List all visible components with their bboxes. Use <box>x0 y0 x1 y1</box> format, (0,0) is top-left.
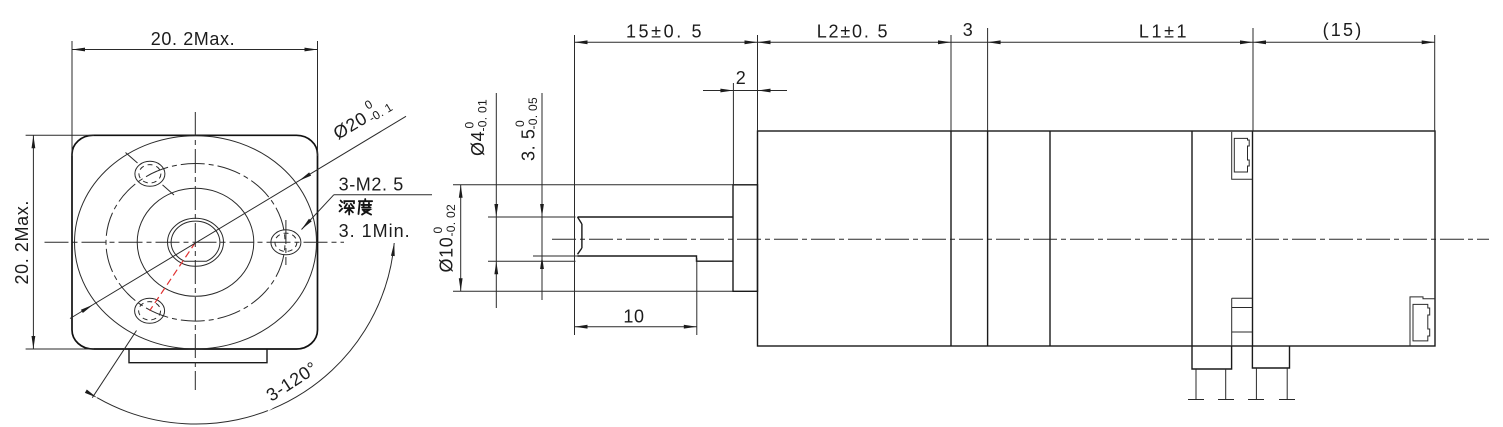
svg-text:(15): (15) <box>1323 20 1364 40</box>
shaft bottom extension line <box>488 260 576 262</box>
shaft flat extension line <box>533 255 578 257</box>
shaft hole circle with bottom flat <box>171 221 220 261</box>
terminal pins block 1 <box>1188 369 1234 400</box>
svg-text:0: 0 <box>463 122 477 129</box>
diameter 20 dimension diagonal line <box>70 116 406 318</box>
shaft boss outer circle <box>168 218 224 266</box>
svg-text:15±0. 5: 15±0. 5 <box>626 22 704 42</box>
dimension 20.2Max. left: dimension line <box>32 135 34 349</box>
bolt circle (dash-dot) <box>106 164 285 322</box>
mounting hole top-left <box>126 153 175 196</box>
svg-text:3-M2. 5: 3-M2. 5 <box>339 175 404 195</box>
dimension L2 arrows <box>758 40 771 44</box>
dimension 15+-0.5 arrows <box>575 40 588 44</box>
dimension row extension lines <box>574 35 576 335</box>
shaft top extension line <box>488 216 576 218</box>
gearbox rear joint line <box>950 131 952 346</box>
main dimension line row <box>575 41 1435 43</box>
svg-text:-0. 02: -0. 02 <box>444 204 458 237</box>
side view centerline <box>552 238 1489 240</box>
spacer ring line <box>987 131 989 346</box>
svg-text:L2±0. 5: L2±0. 5 <box>817 22 890 42</box>
svg-text:Ø4: Ø4 <box>468 131 488 156</box>
encoder joint line <box>1252 131 1254 346</box>
vertical centerline <box>194 112 196 390</box>
front face square outline <box>72 135 318 349</box>
svg-text:-0. 05: -0. 05 <box>526 97 540 130</box>
diameter 20 dimension text <box>327 89 395 145</box>
dimension 20.2Max. top: dimension line <box>72 49 318 51</box>
mounting hole bottom-left <box>135 298 165 323</box>
svg-text:0: 0 <box>431 227 445 234</box>
svg-text:20. 2Max.: 20. 2Max. <box>151 29 235 49</box>
diam 10 dimension line <box>460 185 462 291</box>
svg-text:10: 10 <box>623 307 644 327</box>
diam 10 text <box>431 204 458 273</box>
top connector clip <box>1232 132 1253 179</box>
terminal pins block 2 <box>1248 368 1295 400</box>
dimension (15) right arrow <box>1422 40 1435 44</box>
dimension 20.2Max. top: extension lines <box>71 41 73 156</box>
horizontal centerline <box>45 241 345 243</box>
svg-text:3: 3 <box>963 20 974 40</box>
terminal block 1 <box>1192 346 1232 369</box>
mounting hole right (3-M2.5) <box>271 220 301 265</box>
angular dimension 3-120 arc <box>97 243 394 424</box>
shaft outline with flat <box>578 217 734 261</box>
dimension 20.2Max. left: extension lines <box>26 134 94 136</box>
gearbox barrel circle (diam 20) <box>75 136 317 349</box>
dimension 2 hub <box>732 83 734 185</box>
svg-text:20. 2Max.: 20. 2Max. <box>12 200 32 284</box>
motor body outline <box>758 131 1436 346</box>
svg-text:Ø20: Ø20 <box>330 108 371 144</box>
svg-text:3. 5: 3. 5 <box>519 129 539 161</box>
angular dimension text 3-120 <box>256 354 328 412</box>
svg-text:L1±1: L1±1 <box>1139 22 1189 42</box>
front hub (diam 10 boss) <box>733 185 758 291</box>
svg-text:Ø10: Ø10 <box>437 237 457 273</box>
diam 10 extension lines <box>453 184 733 186</box>
dimension 10 flat length <box>696 258 698 335</box>
svg-text:3. 1Min.: 3. 1Min. <box>339 221 411 241</box>
svg-text:0: 0 <box>513 120 527 127</box>
svg-text:-0. 01: -0. 01 <box>476 99 490 132</box>
svg-text:2: 2 <box>736 68 747 88</box>
dimension 3.5 text <box>513 97 540 161</box>
motor front flange line <box>1049 131 1051 346</box>
diam 4 dimension line <box>495 93 497 308</box>
inner face circle <box>137 188 254 296</box>
diam 4 text <box>463 99 490 156</box>
dimension 3.5 line <box>541 93 543 300</box>
bottom tab flange <box>129 349 267 363</box>
terminal block 2 <box>1252 346 1289 368</box>
bottom brush column <box>1232 298 1253 346</box>
leader note 3-M2.5 <box>334 194 432 196</box>
note text 深度 (drawn strokes) <box>340 199 373 215</box>
red radius reference line center to bottom-left hole <box>150 242 196 310</box>
dimension 3 / L1 shared arrow <box>988 40 1001 44</box>
right rear connector clip <box>1410 297 1435 347</box>
motor rear cap line <box>1191 131 1193 346</box>
radial extension line through bottom-left hole <box>92 331 136 398</box>
dimension L1 / (15) arrows <box>1240 40 1253 44</box>
